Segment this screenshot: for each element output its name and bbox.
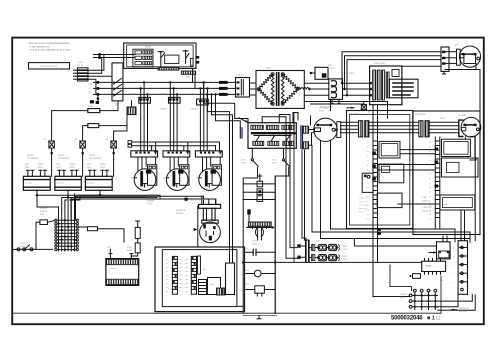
bus L1 xyxy=(98,81,219,83)
svg-text:xx xxxx: xx xxxx xyxy=(458,114,467,117)
wire filter to connector xyxy=(228,82,236,94)
wire connector to N xyxy=(87,58,102,74)
svg-text:xxxx: xxxx xyxy=(56,166,62,169)
wire selector tops xyxy=(262,117,286,123)
main switch S1 xyxy=(112,63,123,101)
motor fan M2 xyxy=(163,151,190,191)
wire N top xyxy=(94,57,136,59)
svg-text:xxxxx: xxxxx xyxy=(161,108,168,111)
fuse F1 xyxy=(49,141,54,176)
wire bus stubs xyxy=(94,82,98,94)
selector switch S3 xyxy=(248,123,296,149)
thermal fuse TF1 xyxy=(135,221,140,239)
motor fan M3 xyxy=(195,151,222,191)
interference suppressor xyxy=(247,222,274,229)
node bus3 xyxy=(96,93,99,96)
power board A3 xyxy=(370,66,402,105)
svg-text:x xx xxxx: x xx xxxx xyxy=(359,205,369,207)
door lock assembly A1 xyxy=(124,43,196,74)
small sensor xyxy=(410,274,421,279)
wire lamp feeds xyxy=(470,158,476,160)
svg-text:■ 1 □: ■ 1 □ xyxy=(427,316,440,322)
electronic control board A2 xyxy=(155,247,245,312)
terminal strip TB2 xyxy=(435,137,440,228)
wire heater merge 1 xyxy=(37,195,160,199)
svg-text:x xxx xxx: x xxx xxx xyxy=(359,198,369,200)
node H1 out xyxy=(36,194,39,197)
legend box xyxy=(29,63,70,69)
svg-text:xx xxxxxxx: xx xxxxxxx xyxy=(27,157,39,160)
svg-text:xxxx xx: xxxx xx xyxy=(359,201,367,203)
svg-text:xxxx xxxxx xxx: xxxx xxxxx xxx xyxy=(40,65,58,68)
svg-text:xxx xxxxx: xxx xxxxx xyxy=(415,113,426,116)
cooling fan M5 xyxy=(445,46,481,111)
node H2 out xyxy=(67,196,70,199)
wire T2 feeds xyxy=(302,150,306,241)
transformer T1 xyxy=(256,71,311,109)
key matrix xyxy=(409,289,437,309)
wire TB1 cross links xyxy=(378,164,435,166)
svg-text:5000032046: 5000032046 xyxy=(391,316,423,322)
relay K4 xyxy=(310,67,328,79)
svg-text:xxxxxx: xxxxxx xyxy=(191,108,199,111)
wire matrix feeds xyxy=(37,195,59,213)
svg-text:xxx xx xx xx x xxxxxxx xx xx x: xxx xx xx xx x xxxxxxx xx xx x xxxx xyxy=(30,49,71,52)
svg-text:xxxxx: xxxxx xyxy=(145,45,152,48)
motor fan M1 xyxy=(131,151,158,191)
braces xyxy=(338,245,341,261)
oven lamp box xyxy=(362,173,373,192)
heater bank H2 xyxy=(55,170,81,197)
svg-text:xxxxx: xxxxx xyxy=(443,204,449,206)
wires mid to right xyxy=(304,102,387,119)
svg-text:x xx x: x xx x xyxy=(342,248,349,251)
connector feed pair xyxy=(128,141,220,151)
enclosure box L xyxy=(347,111,413,229)
node bus1 xyxy=(96,81,99,84)
enclosure wrap wires xyxy=(321,141,471,243)
wire fan top feeds xyxy=(342,52,441,83)
heater bank H1 xyxy=(23,170,50,195)
svg-text:xx xxxx: xx xxxx xyxy=(57,183,65,185)
drain pump M4 xyxy=(194,196,221,247)
bus N xyxy=(98,93,219,95)
note text block top-left xyxy=(29,42,71,52)
svg-text:xxxx: xxxx xyxy=(87,166,93,169)
svg-text:x-x xx: x-x xx xyxy=(77,64,84,67)
wire bundle down right xyxy=(286,117,297,258)
rear fan M7 xyxy=(459,117,481,158)
enclosure wrap wire 3 xyxy=(331,141,456,242)
svg-text:xx: xx xyxy=(466,54,468,56)
svg-text:xxxxxx: xxxxxx xyxy=(110,268,117,270)
wire tap drops to selector xyxy=(204,82,249,122)
connector X3 xyxy=(441,47,449,74)
bus L2 xyxy=(98,87,219,89)
wire matrix links xyxy=(373,296,409,298)
lock pins right xyxy=(196,56,199,64)
EMI filter bars xyxy=(219,81,228,96)
oven fan M6 xyxy=(313,118,341,141)
mains connector X1 xyxy=(74,68,89,81)
black terminal xyxy=(247,209,250,214)
X5 contact blocks xyxy=(303,126,314,149)
note bullet xyxy=(185,198,188,201)
wire board ground xyxy=(237,305,243,307)
title strip line xyxy=(12,312,441,314)
svg-text:xxx xxxx: xxx xxxx xyxy=(345,72,355,75)
relay K2 xyxy=(169,81,181,151)
svg-text:xxxx: xxxx xyxy=(266,67,272,70)
wire lock feeds xyxy=(127,54,132,56)
svg-text:x xxx: x xxx xyxy=(147,203,153,206)
svg-text:xxxx: xxxx xyxy=(161,93,167,96)
wire transformer out xyxy=(304,83,329,95)
svg-text:xxxx: xxxx xyxy=(131,93,137,96)
resistor R1 xyxy=(52,101,118,141)
wire fan to X7 xyxy=(340,122,358,133)
node N1 xyxy=(98,56,101,59)
svg-text:xxxx: xxxx xyxy=(20,245,26,248)
wire TB2 drops xyxy=(460,210,462,241)
svg-text:xxxx: xxxx xyxy=(228,115,234,118)
svg-text:xxxx: xxxx xyxy=(25,166,31,169)
wire lamp feed right xyxy=(474,136,476,240)
svg-text:xxxx: xxxx xyxy=(38,166,44,169)
thermostat S5 xyxy=(275,148,289,313)
wire lock drops xyxy=(192,69,194,83)
wire connector pin3 xyxy=(87,75,112,77)
buzzer B1 xyxy=(243,270,275,277)
lamp board xyxy=(458,241,467,295)
svg-text:xx xx: xx xx xyxy=(400,296,406,299)
heater bank H3 xyxy=(85,170,112,195)
svg-text:xxxx xxx: xxxx xxx xyxy=(359,208,368,210)
svg-text:xxxx: xxxx xyxy=(319,110,325,113)
svg-text:xxx xxxxx: xxx xxxxx xyxy=(349,113,360,116)
node H3 out xyxy=(99,194,102,197)
small contact squares column xyxy=(243,174,275,201)
thermal fuse TF2 xyxy=(131,239,140,259)
svg-text:xxx xxxxxxx: xxx xxxxxxx xyxy=(89,157,102,160)
svg-text:xxxx: xxxx xyxy=(272,162,278,165)
wire connector to L xyxy=(87,55,104,71)
program switch contact matrix xyxy=(55,194,79,251)
arrow selector xyxy=(239,118,248,123)
connector X5 blue xyxy=(301,126,303,149)
border frame xyxy=(12,38,484,325)
svg-text:xxxx: xxxx xyxy=(127,246,133,249)
PE terminal xyxy=(90,96,99,104)
resistor R4 xyxy=(78,227,124,242)
interior lamps row1 xyxy=(315,244,338,250)
fuse F2 xyxy=(80,141,85,176)
node bus2 xyxy=(96,87,99,90)
svg-text:xxxx: xxxx xyxy=(252,243,258,246)
svg-text:xxxx: xxxx xyxy=(426,265,432,268)
lower heater element xyxy=(106,249,139,285)
node ladder xyxy=(274,261,276,263)
svg-text:xxxx: xxxx xyxy=(241,162,247,165)
clock timer IC xyxy=(422,259,446,275)
contactor C1 xyxy=(329,79,343,104)
thermostat S4 xyxy=(243,148,258,313)
resistor R3 xyxy=(36,220,55,250)
relay K3 xyxy=(197,81,209,151)
sub box under switch xyxy=(127,107,136,115)
ground symbol xyxy=(243,316,277,319)
resistor R2 xyxy=(83,115,127,141)
connector X8 xyxy=(419,121,429,137)
svg-text:xx xxxx: xx xxxx xyxy=(25,183,33,185)
relay board A4 xyxy=(389,79,418,98)
svg-text:xxxx: xxxx xyxy=(127,249,133,252)
wire connector pin4 xyxy=(87,79,96,94)
svg-text:xxxx: xxxx xyxy=(440,117,446,120)
svg-text:xxxx: xxxx xyxy=(70,166,76,169)
wire harness mid xyxy=(369,122,419,133)
wire harness to fan R xyxy=(429,122,459,133)
fuse F3 xyxy=(111,126,127,177)
svg-text:xxxx: xxxx xyxy=(191,93,197,96)
arrow note xyxy=(347,107,354,109)
connector X2 xyxy=(236,78,257,98)
node L1 xyxy=(98,53,101,56)
node taps xyxy=(202,81,204,83)
enclosure L inner xyxy=(350,115,410,226)
long wire to IC xyxy=(243,261,422,263)
svg-text:xxxx: xxxx xyxy=(100,166,106,169)
capacitor C1 xyxy=(243,249,275,255)
relay K1 xyxy=(139,81,151,151)
fuse F4 xyxy=(361,102,366,110)
svg-text:x xx xx: x xx xx xyxy=(236,74,244,77)
svg-text:xx xxxx: xx xxxx xyxy=(87,183,95,185)
svg-text:xxxx xxxxx: xxxx xxxxx xyxy=(374,62,386,65)
component X6 xyxy=(243,286,275,296)
svg-text:xxx xxx: xxx xxx xyxy=(459,310,468,313)
ladder rail R xyxy=(274,176,276,313)
svg-text:xxxxxx: xxxxxx xyxy=(176,212,184,215)
nested boxes right of TB2 xyxy=(440,139,478,210)
bottom transformer T2 xyxy=(297,241,315,263)
connector X7 xyxy=(359,121,369,137)
svg-text:xxxxx: xxxxx xyxy=(131,108,138,111)
svg-text:x xx x: x xx x xyxy=(342,258,349,261)
svg-text:xxxx: xxxx xyxy=(88,105,94,108)
door switch S2 xyxy=(13,245,52,251)
indicator lamp E1 xyxy=(256,228,264,240)
terminal strip TB1 xyxy=(372,105,377,297)
enclosure box R xyxy=(413,111,480,235)
fuse ticks xyxy=(51,152,115,154)
wire heater merge 2 xyxy=(68,197,157,199)
interior lamps row2 xyxy=(315,255,338,261)
thermal cut-out relay K5 xyxy=(429,236,450,259)
wire L top xyxy=(94,54,136,56)
connector X4 blue xyxy=(240,128,242,138)
arrow note 2 xyxy=(451,309,457,311)
svg-text:x xxxx: x xxxx xyxy=(328,67,335,70)
nested boxes right of TB1 xyxy=(377,141,404,235)
wire contactor out xyxy=(343,82,372,96)
svg-text:xx xxxxxxx: xx xxxxxxx xyxy=(58,157,70,160)
